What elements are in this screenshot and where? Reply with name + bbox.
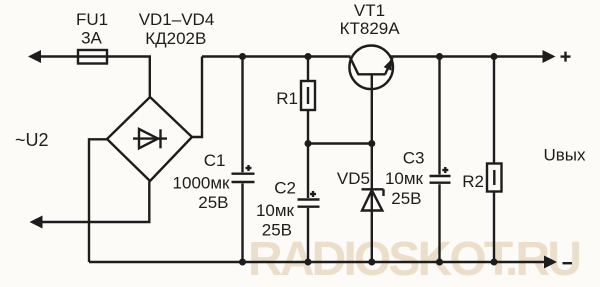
wire VT1 emitter to output bbox=[390, 55, 543, 57]
capacitor C2 bbox=[298, 144, 320, 263]
svg-text:C3: C3 bbox=[403, 149, 425, 168]
node C3 top bbox=[436, 53, 443, 60]
svg-text:~U2: ~U2 bbox=[15, 130, 49, 150]
svg-text:VT1: VT1 bbox=[354, 1, 385, 20]
svg-text:10мк: 10мк bbox=[385, 169, 424, 188]
bottom rail bbox=[89, 261, 544, 263]
top rail: rectifier to VT1 collector bbox=[202, 55, 351, 57]
node C2 bottom bbox=[305, 259, 312, 266]
svg-text:25В: 25В bbox=[391, 189, 421, 208]
svg-text:3А: 3А bbox=[81, 29, 102, 48]
svg-text:RADIOSKOT.RU: RADIOSKOT.RU bbox=[248, 233, 582, 286]
svg-text:C1: C1 bbox=[204, 151, 226, 170]
fuse FU1 bbox=[78, 55, 107, 57]
node C3 bottom bbox=[436, 259, 443, 266]
svg-text:R1: R1 bbox=[276, 89, 298, 108]
node R2 bottom bbox=[491, 259, 498, 266]
wire bridge right corner to top rail bbox=[192, 57, 202, 138]
zener diode VD5 bbox=[362, 144, 384, 263]
svg-text:1000мк: 1000мк bbox=[173, 174, 231, 193]
wire VT1 base bbox=[371, 76, 373, 144]
node R2 top bbox=[491, 53, 498, 60]
node VT1 base junction bbox=[368, 140, 375, 147]
input terminal arrow bottom bbox=[30, 216, 43, 229]
wire input bottom to bridge bottom corner bbox=[41, 182, 150, 223]
bridge internal diode symbol bbox=[133, 137, 167, 139]
output terminal arrow plus bbox=[543, 50, 556, 63]
minus polarity mark bbox=[563, 262, 573, 264]
wire bridge left corner to bottom rail bbox=[89, 139, 107, 262]
wire input top to fuse bbox=[39, 55, 78, 57]
wire R1 to VT1 base junction bbox=[308, 142, 372, 144]
svg-text:КТ829А: КТ829А bbox=[340, 19, 401, 38]
resistor R1 bbox=[301, 57, 315, 144]
bridge rectifier VD1-VD4 bbox=[107, 97, 192, 181]
node R1 C2 junction bbox=[305, 140, 312, 147]
node C1 bottom bbox=[239, 259, 246, 266]
svg-text:C2: C2 bbox=[274, 179, 296, 198]
svg-text:10мк: 10мк bbox=[256, 201, 295, 220]
input terminal arrow top bbox=[28, 50, 41, 63]
svg-text:КД202В: КД202В bbox=[145, 29, 206, 48]
transistor VT1 bbox=[349, 46, 393, 90]
node C1 top bbox=[239, 53, 246, 60]
capacitor C1 bbox=[232, 57, 255, 263]
svg-text:VD1–VD4: VD1–VD4 bbox=[139, 10, 215, 29]
svg-text:R2: R2 bbox=[462, 172, 484, 191]
svg-text:FU1: FU1 bbox=[76, 10, 108, 29]
wire fuse to bridge top corner bbox=[107, 57, 150, 99]
svg-text:25В: 25В bbox=[198, 193, 228, 212]
capacitor C3 bbox=[430, 57, 451, 263]
node R1 top bbox=[305, 53, 312, 60]
svg-text:VD5: VD5 bbox=[337, 169, 370, 188]
svg-text:Uвых: Uвых bbox=[544, 146, 587, 165]
plus polarity mark bbox=[561, 55, 571, 57]
resistor R2 bbox=[487, 57, 502, 263]
svg-text:25В: 25В bbox=[262, 221, 292, 240]
node VD5 bottom bbox=[368, 259, 375, 266]
output terminal arrow minus bbox=[544, 256, 557, 269]
